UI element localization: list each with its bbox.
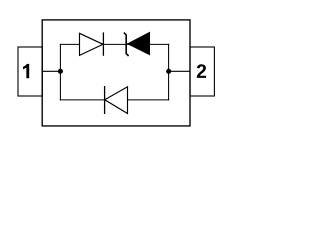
pin 1 terminal box bbox=[18, 47, 42, 96]
junction node A dot bbox=[58, 69, 63, 74]
diode D3 cathode bar bbox=[104, 86, 106, 114]
wire pin1 to node A bbox=[42, 70, 60, 72]
wire node B to pin2 bbox=[169, 70, 190, 72]
wire left vertical bbox=[59, 44, 61, 101]
wire top branch bbox=[60, 43, 169, 45]
diode D1 triangle bbox=[80, 33, 104, 55]
diode D3 triangle bbox=[105, 87, 128, 114]
zener D2 filled triangle bbox=[128, 33, 150, 55]
wire right vertical bbox=[168, 44, 170, 101]
diode D1 cathode bar bbox=[102, 32, 104, 55]
pin 1 label bbox=[23, 64, 29, 78]
junction node B dot bbox=[166, 69, 171, 74]
pin 2 label bbox=[197, 64, 206, 78]
device body outline bbox=[42, 20, 190, 126]
pin 2 terminal box bbox=[190, 47, 214, 96]
zener D2 cathode bar with bent ends bbox=[124, 33, 129, 56]
wire bottom branch bbox=[60, 99, 169, 101]
